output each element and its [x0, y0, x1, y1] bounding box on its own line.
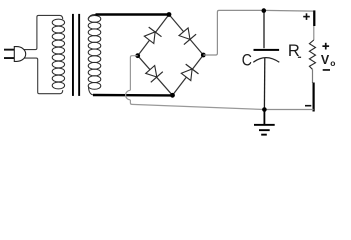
- svg-text:C: C: [242, 52, 252, 70]
- svg-text:V: V: [321, 53, 330, 67]
- svg-text:o: o: [330, 58, 335, 68]
